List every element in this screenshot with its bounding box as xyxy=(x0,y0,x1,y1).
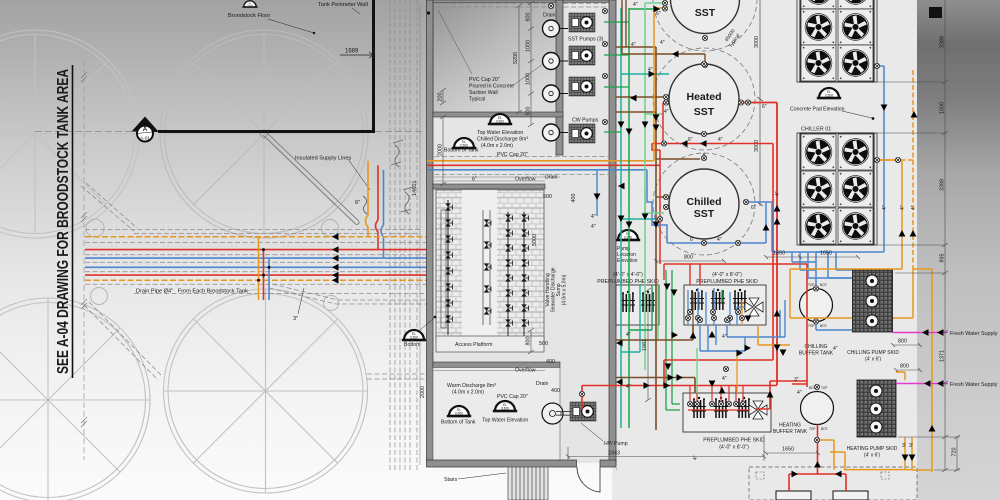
svg-text:500: 500 xyxy=(539,341,548,347)
tank perimeter wall (thick black) xyxy=(158,0,374,133)
wall above warm discharge room xyxy=(433,362,560,368)
teal run to Heated SST xyxy=(621,73,669,75)
chilling pump skid xyxy=(847,270,899,363)
svg-text:CHILLING: CHILLING xyxy=(804,344,827,350)
svg-text:5200: 5200 xyxy=(513,52,519,64)
5200 dim xyxy=(516,4,522,114)
sump valve column 1 xyxy=(441,200,453,335)
elevation marker bottom of tank xyxy=(452,138,476,148)
svg-text:PREPLUMBED PHE SKID: PREPLUMBED PHE SKID xyxy=(703,438,765,444)
svg-text:CHILLER 01: CHILLER 01 xyxy=(801,127,831,133)
PHE skid B xyxy=(684,272,766,325)
3343 dim xyxy=(566,435,766,461)
drain bundle blue pipes xyxy=(85,257,427,259)
svg-text:2000: 2000 xyxy=(420,386,426,398)
elevation marker top water xyxy=(488,114,512,124)
svg-text:3388: 3388 xyxy=(940,36,946,48)
svg-text:4": 4" xyxy=(722,376,727,382)
concrete pad elevation note xyxy=(817,88,841,98)
orange riser at building xyxy=(654,8,665,161)
svg-text:BOT.: BOT. xyxy=(821,427,828,431)
svg-text:BUFFER TANK: BUFFER TANK xyxy=(799,351,834,357)
flow arrows on bundle xyxy=(332,246,339,253)
orange run to chilling skid xyxy=(790,269,913,318)
blue chiller riser xyxy=(874,66,884,252)
svg-text:TOP: TOP xyxy=(821,386,828,390)
warm discharge room xyxy=(433,368,560,461)
svg-text:CW Pumps: CW Pumps xyxy=(572,118,599,124)
svg-text:A: A xyxy=(143,126,148,133)
building interior base xyxy=(428,0,612,463)
flex connector symbols on risers xyxy=(391,140,413,214)
sump walkway strip xyxy=(462,190,497,340)
svg-text:500: 500 xyxy=(543,194,552,200)
svg-text:Drain: Drain xyxy=(536,381,549,387)
svg-text:SST Pumps (3): SST Pumps (3) xyxy=(568,37,604,43)
red main bottom run xyxy=(683,385,777,387)
svg-text:Top Water Elevation: Top Water Elevation xyxy=(482,418,528,424)
svg-text:Typical: Typical xyxy=(469,97,485,103)
svg-text:Drain Pipe Ø4" From Each Bro: Drain Pipe Ø4" From Each Broodstock Tank xyxy=(136,289,248,295)
svg-text:Access Platform: Access Platform xyxy=(455,342,492,348)
svg-text:3388: 3388 xyxy=(940,179,946,191)
broodstock tank top-left xyxy=(0,30,139,238)
svg-text:1650: 1650 xyxy=(773,251,785,257)
svg-text:5000: 5000 xyxy=(532,234,538,246)
svg-text:4": 4" xyxy=(591,214,596,220)
svg-text:1650: 1650 xyxy=(782,447,794,453)
svg-text:HEATING PUMP SKID: HEATING PUMP SKID xyxy=(847,446,898,452)
blue run y202 xyxy=(643,212,664,214)
svg-text:SST: SST xyxy=(694,106,715,118)
svg-text:4": 4" xyxy=(631,42,636,48)
svg-text:4": 4" xyxy=(722,334,727,340)
1981 dim xyxy=(645,288,651,402)
svg-text:6": 6" xyxy=(656,11,661,17)
svg-text:Bottom of Tank: Bottom of Tank xyxy=(444,148,479,154)
tank spacing dimension xyxy=(757,0,763,206)
blue buffer manifold xyxy=(792,252,852,278)
svg-text:4": 4" xyxy=(633,2,638,8)
svg-text:HEATING: HEATING xyxy=(779,423,801,429)
svg-text:Top Water Elevation: Top Water Elevation xyxy=(477,130,523,136)
svg-text:800: 800 xyxy=(898,339,907,345)
svg-text:14601: 14601 xyxy=(412,180,418,196)
svg-text:(4.0m x 2.0m): (4.0m x 2.0m) xyxy=(452,390,484,396)
svg-text:4": 4" xyxy=(775,191,781,196)
seawater sump rotated note xyxy=(545,267,568,312)
red 6in run Heated SST xyxy=(741,102,777,104)
broodstock tank bottom-left xyxy=(0,298,150,500)
svg-text:1981: 1981 xyxy=(642,339,648,351)
svg-text:TOP: TOP xyxy=(808,283,815,287)
sump valve column mid xyxy=(483,210,491,325)
suction wells (3) xyxy=(543,20,560,37)
200 and 2000 dims left wall xyxy=(440,88,446,186)
svg-text:4": 4" xyxy=(900,205,906,210)
right dimension chain xyxy=(877,0,960,472)
HW suction well xyxy=(542,403,563,424)
chilled discharge labels xyxy=(477,130,528,158)
elevation in warm room xyxy=(447,406,471,416)
east inner wall xyxy=(556,0,563,155)
svg-text:PREPLUMBED PHE SKID: PREPLUMBED PHE SKID xyxy=(696,279,758,285)
svg-text:6": 6" xyxy=(690,237,695,243)
right gradient band xyxy=(917,0,1000,500)
orange chiller lines xyxy=(874,160,902,269)
PHE skid A xyxy=(597,272,659,325)
svg-text:500: 500 xyxy=(526,107,532,116)
pad edge dashed extension lines xyxy=(611,0,617,470)
label Broodstock Floor + elevation xyxy=(242,1,257,7)
svg-text:1500: 1500 xyxy=(940,102,946,114)
heating buffer tank xyxy=(773,386,834,435)
svg-text:4": 4" xyxy=(833,346,838,352)
svg-text:400: 400 xyxy=(571,194,577,203)
sump room grid floor xyxy=(436,190,544,340)
svg-text:4": 4" xyxy=(591,224,596,230)
svg-text:3': 3' xyxy=(909,443,913,449)
dashed riser lines from tanks to building (14601 run) xyxy=(390,0,417,470)
blue buffer bottom to skid xyxy=(816,322,852,331)
chilling buffer tank xyxy=(799,283,834,357)
svg-text:4": 4" xyxy=(882,205,888,210)
door swing xyxy=(577,467,600,492)
svg-text:800: 800 xyxy=(684,255,693,261)
svg-text:Heated: Heated xyxy=(686,91,721,103)
svg-text:4": 4" xyxy=(660,40,665,46)
svg-text:Drain: Drain xyxy=(545,175,558,181)
red bottom manifold xyxy=(789,474,846,491)
mint run to Chilled SST xyxy=(644,188,646,213)
800/500/400 sump dims xyxy=(528,328,534,354)
dimension 1689 xyxy=(340,47,374,58)
buffer area dims xyxy=(654,255,860,455)
brown second riser top xyxy=(622,0,705,62)
svg-text:PVC Cap 20": PVC Cap 20" xyxy=(469,77,500,83)
svg-text:3000: 3000 xyxy=(754,140,760,152)
supply pipes from broodstock (orange/red/blue) turning down xyxy=(367,161,369,215)
green main riser xyxy=(628,8,630,428)
svg-text:(4.0m x 2.0m): (4.0m x 2.0m) xyxy=(481,143,513,149)
green CW connection xyxy=(604,131,621,133)
svg-text:3000: 3000 xyxy=(754,36,760,48)
svg-text:Bottom: Bottom xyxy=(404,342,420,348)
match line with break marks xyxy=(81,60,87,460)
svg-text:Concrete Pad Elevation: Concrete Pad Elevation xyxy=(790,107,845,113)
svg-text:BOT.: BOT. xyxy=(820,324,827,328)
broodstock tank top-center xyxy=(160,30,368,238)
svg-text:6": 6" xyxy=(751,205,756,211)
svg-text:Broodstock Floor: Broodstock Floor xyxy=(228,13,270,19)
svg-text:Stairs: Stairs xyxy=(444,477,458,483)
svg-text:A-01: A-01 xyxy=(140,136,150,142)
green/mint drops to PHE skid A xyxy=(629,285,652,330)
svg-text:Bottom of Tank: Bottom of Tank xyxy=(441,420,476,426)
blue supply elbow into tank loop xyxy=(647,170,667,243)
mint run to Heated SST xyxy=(645,113,663,115)
orange right drop xyxy=(913,269,932,472)
valves xyxy=(657,0,900,442)
svg-text:1000: 1000 xyxy=(526,73,532,85)
tank Chilled SST xyxy=(653,153,755,255)
PVC cap note xyxy=(469,77,514,103)
pipe size labels xyxy=(591,2,913,449)
svg-text:(4'-0" x 8'-0"): (4'-0" x 8'-0") xyxy=(712,272,742,278)
drain valve top xyxy=(548,3,553,8)
svg-text:Fresh Water Supply: Fresh Water Supply xyxy=(950,331,998,337)
svg-text:Chilled: Chilled xyxy=(686,196,721,208)
svg-text:4": 4" xyxy=(626,332,631,338)
svg-text:PREPLUMBED PHE SKID: PREPLUMBED PHE SKID xyxy=(597,279,659,285)
pump location elevation note xyxy=(616,230,640,240)
stairs xyxy=(508,467,548,500)
svg-text:800: 800 xyxy=(526,337,532,346)
brown run to Chilled SST top xyxy=(656,153,704,159)
svg-text:TOP: TOP xyxy=(808,324,815,328)
red HW pump line xyxy=(582,386,683,410)
section marker 8 top right xyxy=(929,7,942,18)
svg-text:4": 4" xyxy=(648,67,653,73)
elevation left of warm room xyxy=(493,401,517,411)
CW suction well xyxy=(543,124,560,141)
svg-text:(4'-0" x 8'-0"): (4'-0" x 8'-0") xyxy=(719,445,749,451)
SST pump units xyxy=(569,13,595,32)
svg-text:400: 400 xyxy=(546,359,555,365)
magenta fresh water 1 xyxy=(893,332,949,334)
suction well room gradient floor xyxy=(433,2,559,113)
svg-text:Elevation: Elevation xyxy=(617,258,638,264)
svg-text:Warm Discharge 8m³: Warm Discharge 8m³ xyxy=(447,383,496,389)
svg-text:1371: 1371 xyxy=(940,350,946,362)
svg-text:4": 4" xyxy=(718,137,723,143)
chiller 02 xyxy=(797,0,877,82)
svg-text:SEE A-04 DRAWING FOR BROODSTOC: SEE A-04 DRAWING FOR BROODSTOCK TANK ARE… xyxy=(55,69,72,374)
svg-text:Overflow: Overflow xyxy=(515,368,536,374)
svg-text:1000: 1000 xyxy=(526,40,532,52)
brown run y112 xyxy=(616,111,656,113)
building east wall xyxy=(609,0,616,462)
svg-text:Fresh Water Supply: Fresh Water Supply xyxy=(950,382,998,388)
red loop y143 xyxy=(652,144,773,386)
svg-text:PVC Cap 20": PVC Cap 20" xyxy=(497,394,528,400)
svg-text:HW Pump: HW Pump xyxy=(604,441,628,447)
left gradient zone xyxy=(0,0,612,500)
brown run y98 xyxy=(616,96,663,98)
svg-text:4": 4" xyxy=(797,390,802,396)
mint riser xyxy=(644,12,646,370)
brown run to PHE skid C xyxy=(616,378,695,394)
svg-text:4": 4" xyxy=(626,384,631,390)
800 dims right xyxy=(891,343,922,372)
drain bundle orange dashed pipes xyxy=(85,236,427,238)
svg-text:Insulated Supply Lines: Insulated Supply Lines xyxy=(295,156,351,162)
svg-text:6": 6" xyxy=(762,104,767,110)
tank Heated SST xyxy=(653,48,755,150)
overflow line xyxy=(433,177,560,181)
elevation bottom (sump) xyxy=(402,330,426,340)
west wall xyxy=(427,0,434,462)
blue loop Chilled SST xyxy=(667,202,772,252)
tank Ambient SST xyxy=(653,0,757,51)
svg-text:(4' x 6'): (4' x 6') xyxy=(864,453,880,459)
brown run to PHE skid B xyxy=(616,325,693,340)
sidebar note xyxy=(55,65,73,378)
blue supply spur to HW xyxy=(596,170,598,216)
heating pump skid xyxy=(847,380,898,459)
svg-text:3": 3" xyxy=(293,316,298,322)
svg-text:(4.0m x 5.0m): (4.0m x 5.0m) xyxy=(562,274,568,305)
brown top connection xyxy=(616,46,656,48)
600/1000/1000/500 chain xyxy=(528,1,534,127)
svg-text:Poured In Concrete: Poured In Concrete xyxy=(469,84,514,90)
central flat drawing pad xyxy=(612,0,938,500)
diagonal drain connections xyxy=(81,183,427,380)
north wall xyxy=(433,0,616,3)
sump valve column 2 xyxy=(505,212,528,338)
well stub pipes xyxy=(560,29,569,133)
drain bundle gray dashed rows xyxy=(85,230,427,294)
manhole circles xyxy=(86,219,339,311)
red heating tank drop xyxy=(817,425,819,475)
teal run to Chilled SST xyxy=(621,218,658,220)
svg-text:2343: 2343 xyxy=(608,451,620,457)
HW pump unit xyxy=(570,402,596,421)
PHE skid C xyxy=(683,393,771,451)
future tanks bottom xyxy=(776,491,811,500)
svg-text:Suction Wall: Suction Wall xyxy=(469,90,498,96)
magenta fresh water 2 xyxy=(896,383,948,385)
svg-text:SST: SST xyxy=(694,208,715,220)
red feed to heating buffer xyxy=(777,264,807,387)
svg-text:4": 4" xyxy=(911,205,917,210)
svg-text:3": 3" xyxy=(794,377,799,383)
bottom dashed pad rect xyxy=(749,467,917,500)
section marker A/A-01 xyxy=(132,117,159,142)
svg-text:Drain: Drain xyxy=(543,13,556,19)
flow arrows xyxy=(594,6,944,478)
svg-text:4": 4" xyxy=(693,455,699,460)
red right main riser xyxy=(776,103,778,386)
brown riser xyxy=(655,47,657,430)
insulated supply pipe diagonal xyxy=(263,131,359,225)
blue PHE drops xyxy=(700,300,785,351)
teal main riser xyxy=(620,8,622,428)
supply run through building (orange/red/blue + dashed) xyxy=(427,157,616,175)
svg-text:6": 6" xyxy=(472,177,477,183)
svg-text:BUFFER TANK: BUFFER TANK xyxy=(773,429,808,435)
svg-text:895: 895 xyxy=(940,254,946,263)
mint top run xyxy=(645,3,665,12)
svg-text:2000: 2000 xyxy=(438,144,444,156)
svg-text:4": 4" xyxy=(664,109,669,115)
svg-text:(4'-0" x 4'-0"): (4'-0" x 4'-0") xyxy=(613,272,643,278)
brown run to Chilled left xyxy=(656,196,664,198)
green top run to Ambient SST xyxy=(629,8,660,10)
orange heating skid feed xyxy=(818,372,905,452)
svg-text:SST: SST xyxy=(695,7,716,19)
svg-text:800: 800 xyxy=(900,364,909,370)
broodstock tank bottom-center xyxy=(164,289,368,493)
svg-text:6": 6" xyxy=(355,200,360,206)
svg-text:4": 4" xyxy=(717,237,722,243)
svg-text:PVC Cap 20": PVC Cap 20" xyxy=(497,152,528,158)
svg-text:200: 200 xyxy=(438,93,444,102)
svg-text:(4' x 6'): (4' x 6') xyxy=(865,357,881,363)
svg-text:600: 600 xyxy=(526,13,532,22)
svg-text:Overflow: Overflow xyxy=(515,177,536,183)
svg-text:Chilled Discharge 8m³: Chilled Discharge 8m³ xyxy=(477,137,528,143)
svg-text:Tank Perimeter Wall: Tank Perimeter Wall xyxy=(318,2,368,8)
svg-text:BOT.: BOT. xyxy=(820,283,827,287)
drain bundle red pipes xyxy=(85,249,427,251)
svg-text:400: 400 xyxy=(551,388,560,394)
green pump connections xyxy=(604,22,629,87)
svg-text:1689: 1689 xyxy=(345,49,359,55)
south wall with door opening xyxy=(427,460,577,467)
svg-text:1050: 1050 xyxy=(820,251,832,257)
supply pipe risers to drain bundle xyxy=(366,215,369,237)
svg-text:6": 6" xyxy=(688,137,693,143)
tank feed drops from bundle xyxy=(258,237,260,300)
wall under suction room xyxy=(433,112,563,117)
svg-text:720: 720 xyxy=(952,448,958,457)
red drops in PHE skid C xyxy=(690,386,743,405)
red drops in PHE skid B xyxy=(664,264,777,285)
access platform xyxy=(436,336,544,352)
svg-text:TOP: TOP xyxy=(809,427,816,431)
wall above sump xyxy=(433,184,545,189)
svg-text:3': 3' xyxy=(902,443,906,449)
CW pump unit xyxy=(569,124,595,143)
svg-text:CHILLING PUMP SKID: CHILLING PUMP SKID xyxy=(847,350,899,356)
orange bottom run xyxy=(758,325,932,470)
blue bottom run to buffer xyxy=(772,252,884,289)
centerline dashed through tanks xyxy=(35,131,425,133)
